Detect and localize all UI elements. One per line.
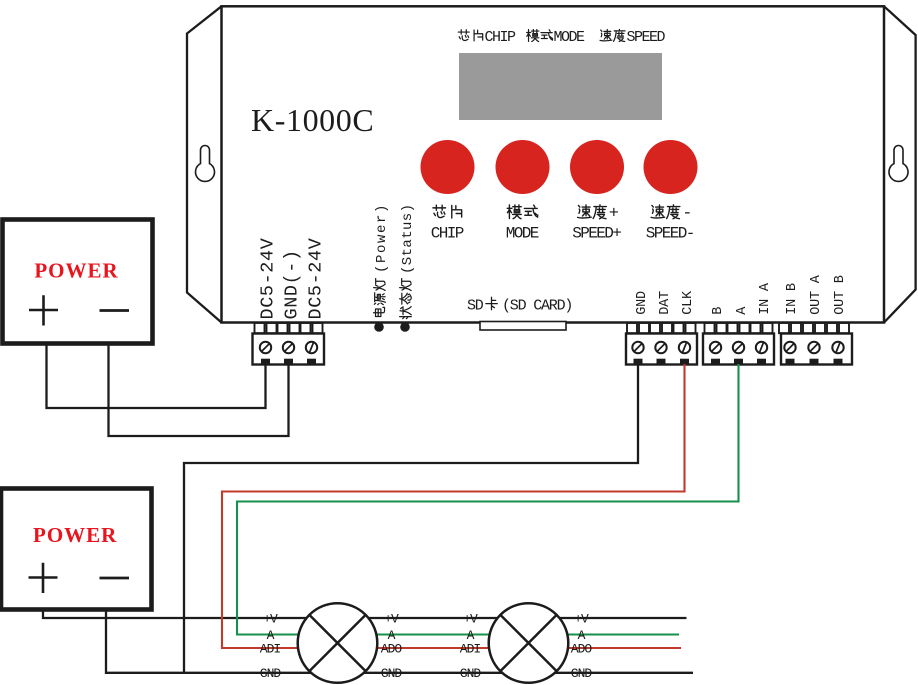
minus terminal symbol of PS2 <box>100 577 130 580</box>
svg-text:SPEED: SPEED <box>627 29 666 46</box>
right mounting flange <box>884 6 916 322</box>
plus terminal symbol of PS2 <box>29 563 58 593</box>
left keyhole mounting slot <box>196 146 215 182</box>
power supply PS1 box <box>3 220 153 344</box>
svg-text:SD: SD <box>467 298 484 315</box>
pin label OUT B <box>833 275 848 315</box>
svg-text:+V: +V <box>384 611 399 626</box>
terminal block J1 power input (DC5-24V / GND / DC5-24V) <box>253 323 325 365</box>
pin label OUT A <box>809 274 824 315</box>
power indicator LED D1 <box>374 322 384 332</box>
svg-text:ADO: ADO <box>571 641 593 656</box>
pin label DC5-24V (+) <box>258 238 279 320</box>
svg-text:(SD CARD): (SD CARD) <box>502 298 572 315</box>
pin label IN B <box>785 283 800 315</box>
pin label CLK <box>681 290 696 315</box>
svg-text:IN A: IN A <box>758 282 773 315</box>
label SD card slot: SD CARD <box>467 297 572 314</box>
terminal block J2 signal output (GND / DAT / CLK) <box>626 323 697 365</box>
wire: J2 CLK terminal to ADI line (red) <box>222 364 685 648</box>
svg-text:SPEED+: SPEED+ <box>572 225 621 243</box>
SD card slot J5 <box>480 322 566 331</box>
LED pixel module LP2 (lamp symbol) <box>489 603 569 683</box>
label status LED (Status) <box>400 204 416 319</box>
left mounting flange <box>187 6 222 322</box>
svg-text:B: B <box>711 307 726 315</box>
wire: J3 A terminal to A line (green) <box>237 364 739 635</box>
svg-text:+: + <box>609 205 619 224</box>
right keyhole mounting slot <box>889 146 908 182</box>
wire: PS1 plus to J1 DC5-24V terminal <box>47 344 266 408</box>
svg-text:GND(-): GND(-) <box>282 249 303 319</box>
pin label DAT <box>658 291 673 315</box>
svg-text:(Status): (Status) <box>400 204 416 274</box>
push button SW4 SPEED- <box>644 140 698 243</box>
push button SW3 SPEED+ <box>570 140 624 243</box>
wire: PS1 minus to J1 GND(-) terminal <box>109 344 289 436</box>
minus terminal symbol of PS1 <box>100 309 130 312</box>
svg-text:MODE: MODE <box>554 29 586 46</box>
plus terminal symbol of PS1 <box>29 295 58 325</box>
svg-text:ADO: ADO <box>381 641 403 656</box>
pin label B <box>711 307 726 315</box>
push button SW1 CHIP <box>421 140 475 243</box>
controller U1 K-1000C enclosure body <box>222 6 885 322</box>
svg-text:OUT B: OUT B <box>833 275 848 315</box>
LED pixel module LP1 (lamp symbol) <box>298 603 378 683</box>
wire: PS2 minus along GND bus to LED strip <box>106 610 693 673</box>
svg-text:GND: GND <box>460 666 482 681</box>
svg-text:+V: +V <box>574 611 589 626</box>
svg-text:SPEED-: SPEED- <box>646 225 694 243</box>
svg-text:DC5-24V: DC5-24V <box>306 238 327 320</box>
svg-text:POWER: POWER <box>34 259 118 283</box>
wire: J2 GND terminal down to GND bus <box>184 364 638 673</box>
svg-text:+V: +V <box>263 611 278 626</box>
node labels set 2: +V / A / ADO / GND <box>381 611 403 681</box>
svg-text:MODE: MODE <box>506 225 539 243</box>
svg-text:A: A <box>735 306 750 315</box>
terminal block J4 (IN B / OUT A / OUT B) <box>779 323 852 365</box>
svg-text:OUT A: OUT A <box>809 274 824 315</box>
svg-text:GND: GND <box>635 291 650 315</box>
svg-text:CHIP: CHIP <box>485 29 517 46</box>
svg-text:POWER: POWER <box>33 523 117 547</box>
wire: PS2 plus to +V bus <box>43 610 687 618</box>
svg-text:GND: GND <box>260 666 282 681</box>
svg-text:ADI: ADI <box>260 641 281 656</box>
label power LED (Power) <box>373 203 390 316</box>
svg-text:IN B: IN B <box>785 283 800 315</box>
pin label IN A <box>758 282 773 315</box>
svg-text:CHIP: CHIP <box>431 225 464 243</box>
svg-text:-: - <box>682 205 691 224</box>
display legend: CHIP / MODE / SPEED <box>458 29 665 46</box>
push button SW2 MODE <box>496 140 550 243</box>
svg-text:CLK: CLK <box>681 290 696 315</box>
LCD display DS1 <box>459 53 662 120</box>
node labels set 3: +V / A / ADI / GND <box>460 611 482 681</box>
svg-text:+V: +V <box>463 611 478 626</box>
pin label DC5-24V (out) <box>306 238 327 320</box>
status indicator LED D2 <box>400 322 410 332</box>
svg-text:GND: GND <box>381 666 403 681</box>
pin label GND <box>635 291 650 315</box>
power supply PS2 box <box>1 489 152 610</box>
pin label A <box>735 306 750 315</box>
svg-text:ADI: ADI <box>460 641 481 656</box>
svg-text:DC5-24V: DC5-24V <box>258 238 279 320</box>
svg-text:GND: GND <box>571 666 593 681</box>
svg-text:K-1000C: K-1000C <box>251 102 374 138</box>
svg-text:(Power): (Power) <box>374 203 390 273</box>
svg-text:DAT: DAT <box>658 291 673 315</box>
pin label GND(-) <box>282 249 303 319</box>
node labels set 4: +V / A / ADO / GND <box>571 611 593 681</box>
terminal block J3 (B / A / IN A) <box>703 323 774 365</box>
node labels set 1: +V / A / ADI / GND <box>260 611 282 681</box>
